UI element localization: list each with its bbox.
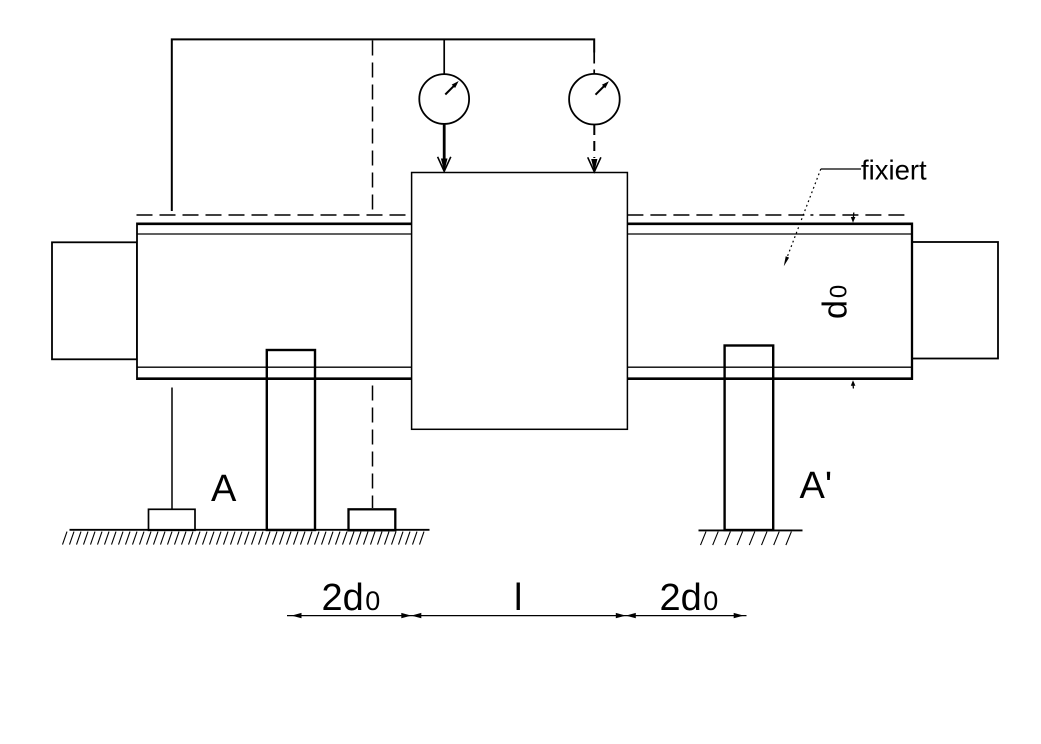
dimension arrow far left [292,613,302,618]
dimension arrow pair at second boundary [616,613,626,618]
gauge 2 dashed stem [593,53,595,74]
shaft bottom outer line [137,377,912,380]
measuring block [412,173,628,430]
dial gauge 1 probe arrow [443,124,446,166]
right shaft end cap [912,242,998,359]
top frame bar [172,39,594,211]
gauge stand line [171,388,173,510]
dashed vertical lower segment [372,386,374,509]
shaft body fill [137,223,912,381]
svg-text:A: A [211,468,237,510]
dial gauge 1 circle [419,74,469,124]
dashed vertical upper segment [372,41,374,214]
dial gauge 2 dashed probe arrow [593,125,595,158]
right support column [725,346,774,531]
dimension arrow far right [734,613,744,618]
left ground line [70,529,430,531]
left support column [267,350,315,530]
left foot block [149,509,196,530]
shaft centerline dashed right segment [627,214,911,216]
fixiert leader line [821,168,861,170]
fixiert reference tick bottom [851,380,856,386]
right ground hatching [701,532,792,546]
fixiert reference tick top [852,213,855,219]
left shaft end cap [52,242,137,359]
right foot block [349,509,396,530]
dial gauge 2 circle [569,74,620,125]
shaft top inner line [137,233,912,235]
dial gauge 1 needle [445,84,455,94]
right ground line [699,529,803,531]
dimension line [287,615,747,617]
dial gauge 2 needle [596,85,606,95]
dimension arrow pair at first boundary [401,613,411,618]
shaft centerline dashed left segment [137,214,412,216]
svg-text:l: l [514,577,522,619]
shaft bottom inner line [137,366,912,368]
svg-text:fixiert: fixiert [861,155,927,186]
gauge 1 stem [443,39,445,74]
shaft right edge [911,223,913,381]
svg-text:A': A' [800,465,833,507]
shaft top outer line [137,223,912,226]
left ground hatching [63,532,425,545]
shaft left edge [136,223,138,381]
